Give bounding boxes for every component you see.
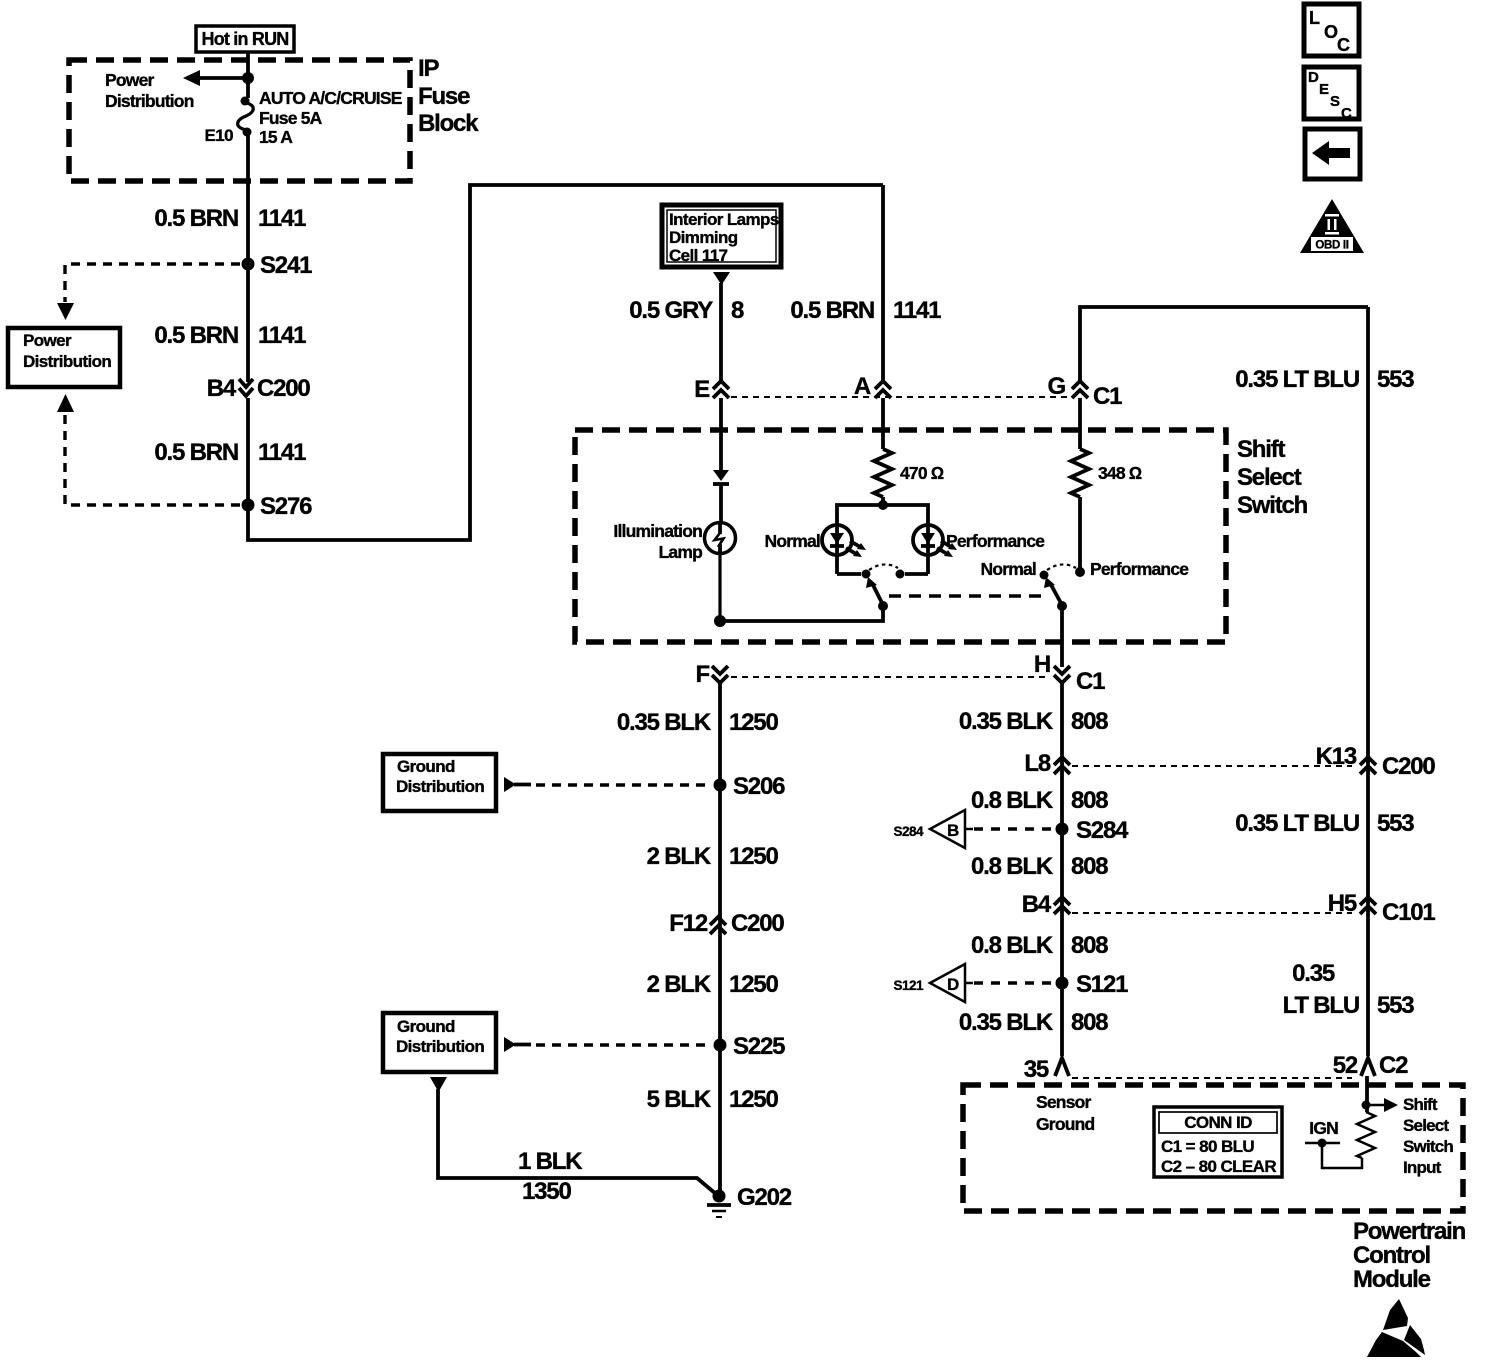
ground wire from box 2 to G202 [430,1077,716,1194]
svg-text:Ground: Ground [397,1017,455,1036]
dashed connector line C2 (35-52) [1072,1077,1352,1079]
svg-text:2 BLK: 2 BLK [647,843,712,870]
label 2 BLK 1250 (lower) [647,971,779,998]
button LOC [1304,4,1359,56]
dashed connector line C200 (L8-K13) [1072,765,1352,767]
svg-text:C200: C200 [257,375,310,402]
svg-text:E: E [1319,81,1329,98]
svg-text:808: 808 [1071,1009,1108,1036]
wire resistor to LED branch [881,497,885,505]
svg-text:O: O [1324,22,1338,42]
svg-text:Distribution: Distribution [396,777,484,796]
logo OBD II [1300,199,1364,253]
svg-text:Distribution: Distribution [23,352,111,371]
svg-text:0.35: 0.35 [1292,960,1335,987]
svg-text:B: B [947,821,959,840]
label Power Distribution (fuse block) [105,70,194,111]
svg-text:Block: Block [418,110,479,137]
svg-text:Normal: Normal [981,559,1037,579]
svg-text:Fuse: Fuse [418,83,470,110]
svg-text:LT BLU: LT BLU [1283,992,1359,1019]
svg-text:35: 35 [1024,1056,1049,1083]
powertrain control module box (dashed) [963,1085,1463,1211]
svg-text:553: 553 [1377,366,1414,393]
PCM pull-up resistor [1357,1112,1375,1158]
svg-text:0.8 BLK: 0.8 BLK [971,787,1054,814]
svg-text:1141: 1141 [258,439,306,466]
svg-text:0.35 LT BLU: 0.35 LT BLU [1235,366,1359,393]
connector pin F chevrons [712,666,728,683]
label 0.8 BLK 808 (upper) [971,787,1108,814]
select switch blade [1044,577,1067,611]
label 0.5 BRN 1141 (to S276) [154,439,306,466]
svg-text:Powertrain: Powertrain [1353,1218,1466,1245]
svg-text:470 Ω: 470 Ω [900,463,944,483]
select switch contact arc [1047,564,1076,570]
connector pin A chevrons [875,381,891,398]
LED performance indicator [913,525,957,557]
wire top run G to right riser [1080,307,1368,380]
svg-text:S: S [1330,93,1340,110]
node S206 [714,779,727,792]
svg-text:Normal: Normal [765,531,821,551]
wire F down to G202 [718,683,722,1191]
wire diode to lamp [719,484,723,523]
dashed connector line C1 (F-H) [731,676,1050,678]
label 0.35 LT BLU 553 (mid) [1235,810,1414,837]
label Shift Select Switch [1237,436,1308,519]
wire hot-in-run to fuse [246,52,250,98]
wire junction to blade common [720,606,883,621]
svg-text:Fuse 5A: Fuse 5A [259,108,323,128]
dim switch blade [866,577,888,611]
svg-text:1 BLK: 1 BLK [518,1148,583,1175]
connector pin G chevrons [1072,381,1088,398]
dim switch contact arc [869,564,898,570]
node S284 [1056,823,1069,836]
ground distribution box 1 [383,754,496,811]
wire right riser down [1366,307,1370,1056]
label 0.35 BLK 1250 [617,709,779,736]
wire blade to H [1060,606,1064,667]
node lamp junction [714,615,726,627]
node select contact performance [1075,567,1085,577]
svg-text:IGN: IGN [1309,1118,1338,1138]
label 5 BLK 1250 [647,1086,779,1113]
ground G202 [707,1190,731,1218]
wire A to resistor 470 [881,398,885,449]
svg-text:Power: Power [23,331,72,350]
wire A riser drop [881,185,885,380]
IGN stub wire [1305,1139,1362,1169]
svg-text:0.5 BRN: 0.5 BRN [790,297,874,324]
resistor 348 ohm [1071,449,1089,497]
connector pin 52 chevron [1361,1058,1375,1076]
label 0.5 BRN 1141 (fuse output) [154,205,306,232]
dashed tap ground distribution to S225 [504,1037,712,1052]
connector pin H chevrons [1054,666,1070,683]
node dim switch contact performance [896,570,905,579]
svg-text:C101: C101 [1382,899,1435,926]
svg-text:S276: S276 [260,493,312,520]
svg-text:Distribution: Distribution [396,1037,484,1056]
svg-text:1141: 1141 [258,205,306,232]
node select contact normal [1040,571,1049,580]
svg-text:L: L [1309,8,1320,28]
svg-text:OBD II: OBD II [1315,240,1348,252]
svg-text:1250: 1250 [729,843,778,870]
svg-text:1250: 1250 [729,1086,778,1113]
label Sensor Ground [1036,1092,1094,1134]
wire C200 to S276 [246,398,250,505]
svg-text:0.35 LT BLU: 0.35 LT BLU [1235,810,1359,837]
label 0.8 BLK 808 (middle) [971,853,1108,880]
svg-text:C1: C1 [1076,668,1105,695]
interior lamps dimming cell box [662,205,781,267]
svg-text:D: D [1308,69,1319,86]
node S225 [714,1039,727,1052]
svg-text:C: C [1341,105,1352,122]
splice reference triangle B (S284) [893,810,1052,848]
svg-text:K13: K13 [1316,743,1357,770]
connector C200 pin F12 chevrons [710,917,726,934]
label Hot in RUN [196,26,294,52]
svg-text:0.5 GRY: 0.5 GRY [629,297,713,324]
svg-text:Interior Lamps: Interior Lamps [669,210,779,229]
diode symbol on lamp wire [713,470,729,484]
label 0.35 LT BLU 553 (top) [1235,366,1414,393]
node S241 [242,258,255,271]
svg-text:S284: S284 [893,824,924,839]
node dim switch contact normal [862,570,871,579]
logo ESD sensitive device [1367,1299,1425,1357]
connector C200 pin K13 chevrons [1360,757,1376,774]
svg-text:553: 553 [1377,810,1414,837]
svg-text:Control: Control [1353,1242,1430,1269]
LED normal indicator [822,525,866,557]
svg-text:E10: E10 [205,126,234,145]
wire LED branch top [837,505,928,574]
wire resistor to performance contact [1078,497,1082,572]
button back-arrow [1305,129,1360,179]
svg-text:Power: Power [105,70,155,90]
svg-text:0.35 BLK: 0.35 BLK [617,709,712,736]
svg-text:S225: S225 [733,1033,785,1060]
svg-text:AUTO A/C/CRUISE: AUTO A/C/CRUISE [259,88,402,108]
label 0.35 BLK 808 [959,708,1108,735]
svg-text:Performance: Performance [1090,559,1189,579]
svg-text:Illumination: Illumination [613,521,702,541]
svg-text:Ground: Ground [397,757,455,776]
svg-text:Shift: Shift [1237,436,1286,463]
svg-text:L8: L8 [1024,750,1050,777]
svg-text:A: A [854,373,871,400]
svg-text:Hot in RUN: Hot in RUN [202,29,289,49]
wire S241 to C200 [246,264,250,382]
svg-text:G202: G202 [737,1184,792,1211]
arrow shift select switch input [1366,1098,1398,1112]
label AUTO A/C/CRUISE Fuse 5A 15 A [259,88,402,147]
svg-text:348 Ω: 348 Ω [1098,463,1142,483]
svg-text:808: 808 [1071,708,1108,735]
svg-text:0.5 BRN: 0.5 BRN [154,322,238,349]
svg-text:C200: C200 [1382,753,1435,780]
svg-text:808: 808 [1071,787,1108,814]
illumination lamp [705,523,736,555]
svg-text:D: D [947,975,959,994]
mechanical link dashed [889,594,1046,598]
node shift select input branch [1362,1101,1371,1110]
CONN ID table [1154,1107,1282,1177]
svg-text:B4: B4 [1022,891,1052,918]
svg-text:5 BLK: 5 BLK [647,1086,712,1113]
svg-text:0.8 BLK: 0.8 BLK [971,932,1054,959]
connector pin 35 chevron [1055,1058,1069,1076]
ground distribution box 2 [383,1013,496,1072]
svg-text:E: E [694,376,710,403]
label Powertrain Control Module [1353,1218,1466,1293]
splice reference triangle D (S121) [893,964,1052,1002]
connector C101 pin H5 chevrons [1360,897,1376,914]
wire fuse to S241 [246,135,250,264]
svg-text:G: G [1048,373,1066,400]
dashed connector line C101 (B4-H5) [1072,912,1352,914]
svg-text:F12: F12 [669,910,708,937]
wire E into switch box [719,398,723,470]
svg-text:S206: S206 [733,773,785,800]
svg-text:C200: C200 [731,910,784,937]
svg-text:Distribution: Distribution [105,91,194,111]
svg-text:Switch: Switch [1403,1137,1453,1156]
svg-text:1350: 1350 [522,1178,571,1205]
svg-text:Shift: Shift [1403,1095,1438,1114]
svg-text:Dimming: Dimming [669,228,738,247]
wire G to resistor 348 [1078,398,1082,449]
svg-text:0.5 BRN: 0.5 BRN [154,205,238,232]
svg-text:808: 808 [1071,932,1108,959]
svg-text:808: 808 [1071,853,1108,880]
connector C101 pin B4 chevrons [1054,897,1070,914]
shift select switch box (dashed) [575,430,1226,642]
svg-text:553: 553 [1377,992,1414,1019]
svg-text:Select: Select [1237,464,1302,491]
svg-text:H5: H5 [1328,890,1357,917]
svg-text:0.5 BRN: 0.5 BRN [154,439,238,466]
svg-text:C2: C2 [1379,1052,1408,1079]
resistor 470 ohm [874,449,892,497]
svg-text:0.35 BLK: 0.35 BLK [959,1009,1054,1036]
label LT BLU 553 (right lower) [1283,992,1415,1019]
connector C200 pin B4 chevrons [239,379,253,396]
label 0.5 GRY 8 [629,297,744,324]
svg-text:0.8 BLK: 0.8 BLK [971,853,1054,880]
svg-text:CONN ID: CONN ID [1184,1113,1252,1132]
svg-text:1141: 1141 [893,297,941,324]
fuse E10 AUTO A/C/CRUISE 15A [238,97,254,137]
svg-text:1250: 1250 [729,709,778,736]
node LED branch junction [878,500,888,510]
node S121 [1056,977,1069,990]
svg-text:C: C [1337,35,1350,55]
svg-text:1250: 1250 [729,971,778,998]
svg-text:S121: S121 [893,978,924,993]
svg-text:B4: B4 [207,375,237,402]
svg-text:Cell 117: Cell 117 [669,246,728,265]
label 0.5 BRN 1141 (A riser) [790,297,941,324]
wire dimming cell to E [719,283,723,380]
dashed tap S241 to power distribution [57,264,240,320]
svg-text:Select: Select [1403,1116,1449,1135]
svg-text:Ground: Ground [1036,1114,1094,1134]
wire LED branch bottom right [905,572,928,576]
label 0.5 BRN 1141 (S241 to C200) [154,322,306,349]
connector pin E chevrons [713,381,729,398]
label 0.35 BLK 808 (bottom) [959,1009,1108,1036]
svg-text:52: 52 [1333,1052,1358,1079]
label Illumination Lamp [613,521,702,562]
label Shift Select Switch Input [1403,1095,1453,1177]
svg-text:15 A: 15 A [259,127,293,147]
svg-text:Switch: Switch [1237,492,1308,519]
dashed tap S276 to power distribution [57,394,240,505]
label 0.8 BLK 808 (lower) [971,932,1108,959]
svg-text:1141: 1141 [258,322,306,349]
node power-feed junction [242,72,254,84]
wire 52 into PCM [1365,1076,1369,1112]
wire power distribution feed arrow [183,70,248,86]
dashed connector line C1 (E-A-G) [731,396,1070,398]
svg-text:S121: S121 [1076,971,1128,998]
wire LED branch bottom left [837,572,861,576]
wire lamp to junction [718,553,721,621]
IP fuse block box (dashed) [69,60,410,181]
connector C200 pin L8 chevrons [1054,757,1070,774]
node S276 [242,499,255,512]
svg-text:S284: S284 [1076,817,1129,844]
svg-text:IP: IP [418,55,439,82]
svg-text:0.35 BLK: 0.35 BLK [959,708,1054,735]
arrow from dimming cell [713,272,730,285]
svg-text:2 BLK: 2 BLK [647,971,712,998]
svg-text:Lamp: Lamp [659,542,703,562]
svg-text:Performance: Performance [946,531,1045,551]
button DESC [1304,67,1359,122]
svg-text:C1 = 80 BLU: C1 = 80 BLU [1161,1137,1254,1156]
svg-text:Module: Module [1353,1266,1431,1293]
power distribution box (left) [8,328,120,387]
svg-text:8: 8 [731,297,744,324]
wire S276 around to A riser [248,185,883,540]
label 2 BLK 1250 [647,843,779,870]
wire H down to PCM pin 35 [1060,683,1064,1056]
svg-text:C1: C1 [1093,383,1122,410]
label IP Fuse Block [418,55,479,137]
dashed tap ground distribution to S206 [504,777,712,792]
svg-text:C2 – 80 CLEAR: C2 – 80 CLEAR [1161,1157,1276,1176]
svg-text:Sensor: Sensor [1036,1092,1092,1112]
svg-text:S241: S241 [260,252,312,279]
svg-text:H: H [1034,651,1050,678]
svg-text:F: F [696,661,710,688]
svg-text:Input: Input [1403,1158,1442,1177]
